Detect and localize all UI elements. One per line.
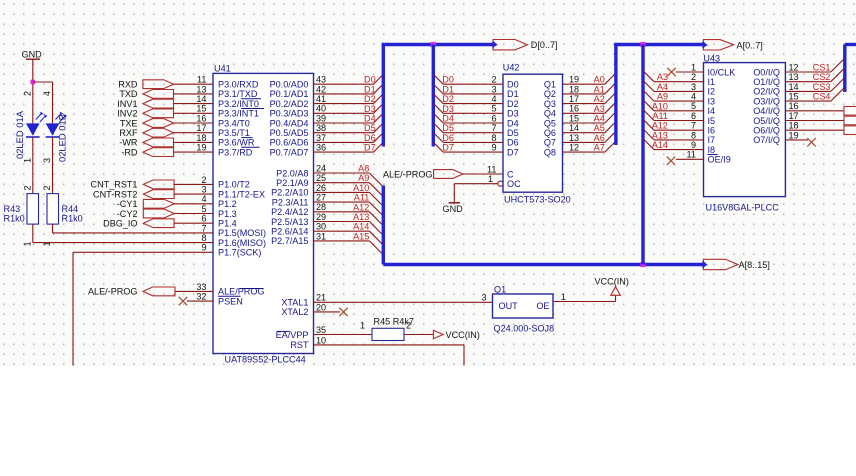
- wire net D3: [314, 103, 384, 113]
- wire net A1: [563, 83, 616, 94]
- svg-text:A7: A7: [594, 143, 605, 153]
- svg-text:U42: U42: [503, 63, 520, 73]
- svg-text:P2.5/A13: P2.5/A13: [271, 217, 308, 227]
- svg-text:A9: A9: [358, 173, 369, 183]
- svg-text:R44: R44: [62, 204, 79, 214]
- svg-text:5: 5: [491, 104, 496, 114]
- svg-text:17: 17: [789, 111, 799, 121]
- svg-text:2: 2: [23, 91, 33, 96]
- junction: [640, 262, 645, 267]
- wire branch to LED 01B: [33, 82, 53, 123]
- svg-text:4: 4: [201, 194, 206, 204]
- wire pin 9 down to sheet edge: [73, 252, 213, 365]
- wire net A10: [314, 192, 384, 206]
- bus wire A[8..15] vertical: [382, 186, 385, 265]
- bus wire CS vertical (right): [843, 45, 846, 93]
- resistor (edge) R49: [844, 126, 856, 135]
- svg-text:D[0..7]: D[0..7]: [531, 40, 558, 50]
- net label A0: [594, 75, 605, 85]
- wire: [174, 132, 214, 134]
- svg-text:P3.7/RD: P3.7/RD: [218, 147, 253, 157]
- svg-text:P3.4/T0: P3.4/T0: [218, 118, 250, 128]
- svg-text:O6/I/Q: O6/I/Q: [753, 126, 780, 136]
- wire net D4 (U42): [433, 113, 503, 123]
- svg-text:Q5: Q5: [544, 118, 556, 128]
- svg-text:A0: A0: [594, 75, 605, 85]
- svg-text:1: 1: [23, 241, 33, 246]
- pin 2 of R43: [23, 185, 33, 190]
- svg-text:P2.6/A14: P2.6/A14: [271, 227, 308, 237]
- wire: [174, 183, 213, 185]
- port ALE/-PROG (at U42): [383, 169, 463, 179]
- resistor R45 R4k7: [360, 317, 414, 341]
- svg-text:16: 16: [196, 113, 206, 123]
- port TXD: [119, 89, 173, 99]
- svg-text:OE: OE: [536, 301, 549, 311]
- svg-text:P3.6/WR: P3.6/WR: [218, 138, 255, 148]
- svg-text:O0/I/Q: O0/I/Q: [753, 67, 780, 77]
- svg-text:5: 5: [691, 101, 696, 111]
- wire net D2: [314, 94, 384, 104]
- svg-text:RXD: RXD: [118, 80, 138, 90]
- svg-text:P2.2/A10: P2.2/A10: [271, 188, 308, 198]
- svg-text:18: 18: [789, 121, 799, 131]
- svg-text:ALE/-PROG: ALE/-PROG: [88, 287, 138, 297]
- net label A8: [358, 164, 369, 174]
- svg-text:Q4: Q4: [544, 109, 556, 119]
- wire net A9: [314, 183, 384, 197]
- wire: [785, 120, 844, 122]
- svg-text:D1: D1: [442, 84, 454, 94]
- bus wire D vertical (U42 side): [432, 45, 435, 147]
- svg-text:8: 8: [491, 133, 496, 143]
- wire net D6: [314, 133, 384, 143]
- wire net D4: [314, 113, 384, 123]
- svg-text:P0.4/AD4: P0.4/AD4: [270, 118, 309, 128]
- svg-text:P0.1/AD1: P0.1/AD1: [270, 89, 309, 99]
- svg-text:9: 9: [491, 143, 496, 153]
- svg-text:P3.5/T1: P3.5/T1: [218, 128, 250, 138]
- wire GND to U42 OC pin 1: [454, 183, 498, 185]
- svg-text:P2.7/A15: P2.7/A15: [271, 236, 308, 246]
- wire: [785, 110, 844, 112]
- no-connect X on U43 pin 19: [785, 138, 815, 146]
- port DBG_IO: [103, 219, 174, 229]
- svg-text:14: 14: [569, 123, 579, 133]
- net label D1: [364, 84, 376, 94]
- no-connect X on XTAL2 pin 20: [314, 308, 348, 316]
- net label CS1: [813, 63, 831, 73]
- net label D0 (U42): [442, 75, 454, 85]
- wire net A14: [314, 231, 384, 245]
- resistor (edge) R47: [844, 107, 856, 116]
- svg-text:A1: A1: [594, 84, 605, 94]
- IC U42 UHCT573-SO20: [487, 63, 579, 205]
- svg-text:A10: A10: [652, 101, 668, 111]
- net label A6: [594, 133, 605, 143]
- wire R44 to pin 7: [53, 224, 214, 233]
- svg-text:A10: A10: [353, 183, 369, 193]
- svg-text:13: 13: [789, 72, 799, 82]
- svg-text:PSEN: PSEN: [218, 296, 243, 306]
- svg-text:25: 25: [316, 173, 326, 183]
- svg-text:42: 42: [316, 84, 326, 94]
- net label CS2: [813, 72, 831, 82]
- svg-text:18: 18: [196, 133, 206, 143]
- svg-text:11: 11: [197, 75, 206, 85]
- wire net A7: [563, 141, 616, 152]
- net label D7 (U42): [442, 143, 454, 153]
- svg-text:GND: GND: [443, 204, 464, 214]
- wire net A2: [563, 93, 616, 104]
- svg-text:Q24.000-SOJ8: Q24.000-SOJ8: [494, 324, 555, 334]
- svg-text:I6: I6: [708, 126, 716, 136]
- wire net D5: [314, 123, 384, 133]
- wire net A10 (U43): [643, 100, 704, 111]
- svg-text:P0.7/AD7: P0.7/AD7: [270, 147, 309, 157]
- port CNT_RST1: [91, 180, 175, 190]
- svg-text:A2: A2: [594, 94, 605, 104]
- svg-text:RST: RST: [290, 340, 309, 350]
- svg-text:2: 2: [42, 185, 52, 190]
- net label A9 (U43): [657, 92, 668, 102]
- wire net D5 (U42): [433, 123, 503, 133]
- svg-text:D5: D5: [507, 128, 519, 138]
- svg-text:I8: I8: [708, 145, 716, 155]
- svg-text:02LED 01B: 02LED 01B: [57, 114, 68, 162]
- wire GND to LEDs: [32, 59, 34, 123]
- svg-text:27: 27: [316, 193, 326, 203]
- wire: [174, 193, 213, 195]
- svg-text:30: 30: [316, 222, 326, 232]
- svg-text:37: 37: [316, 133, 326, 143]
- svg-text:UAT89S52-PLCC44: UAT89S52-PLCC44: [225, 355, 306, 365]
- svg-text:P1.5(MOSI): P1.5(MOSI): [218, 228, 266, 238]
- svg-text:13: 13: [196, 84, 206, 94]
- power port VCC(IN) (at Q1): [595, 276, 629, 295]
- svg-text:CS4: CS4: [813, 92, 831, 102]
- svg-text:12: 12: [569, 143, 579, 153]
- crystal Q1 Q24.000-SOJ8: [481, 284, 565, 333]
- svg-text:P3.1/TXD: P3.1/TXD: [218, 89, 258, 99]
- svg-text:15: 15: [789, 92, 799, 102]
- svg-text:4: 4: [491, 94, 496, 104]
- net label A13: [353, 212, 369, 222]
- wire: [174, 122, 214, 124]
- svg-text:CNT-RST2: CNT-RST2: [93, 189, 137, 199]
- net label A12: [353, 202, 369, 212]
- svg-text:D3: D3: [442, 104, 454, 114]
- svg-text:CS2: CS2: [813, 72, 831, 82]
- svg-text:6: 6: [691, 111, 696, 121]
- svg-text:24: 24: [316, 163, 326, 173]
- svg-text:A4: A4: [657, 82, 668, 92]
- svg-text:6: 6: [201, 214, 206, 224]
- svg-text:1: 1: [691, 62, 696, 72]
- svg-text:GND: GND: [22, 50, 43, 60]
- svg-text:A9: A9: [657, 92, 668, 102]
- svg-text:O2/I/Q: O2/I/Q: [753, 87, 780, 97]
- svg-text:P0.6/AD6: P0.6/AD6: [270, 138, 309, 148]
- svg-text:-CY1: -CY1: [117, 199, 138, 209]
- net label CS4: [813, 92, 831, 102]
- port -WR: [119, 138, 173, 148]
- svg-text:TXD: TXD: [119, 89, 138, 99]
- svg-text:ALE/-PROG: ALE/-PROG: [383, 169, 433, 179]
- net label D2 (U42): [442, 94, 454, 104]
- svg-text:I3: I3: [708, 96, 716, 106]
- wire net D7: [314, 142, 384, 152]
- wire net D0: [314, 74, 384, 84]
- svg-text:2: 2: [491, 75, 496, 85]
- wire R43 to pin 8: [33, 224, 213, 243]
- svg-text:I1: I1: [708, 77, 716, 87]
- svg-text:D0: D0: [364, 75, 376, 85]
- wire Q1 OE to VCC(IN): [553, 295, 616, 301]
- svg-text:4: 4: [42, 91, 52, 96]
- svg-text:9: 9: [201, 243, 206, 253]
- svg-text:2: 2: [201, 175, 206, 185]
- svg-text:O5/I/Q: O5/I/Q: [753, 116, 780, 126]
- net label D7: [364, 143, 376, 153]
- svg-text:D2: D2: [507, 99, 519, 109]
- svg-text:U43: U43: [703, 53, 720, 63]
- svg-text:18: 18: [569, 84, 579, 94]
- svg-text:A3: A3: [657, 72, 668, 82]
- svg-text:3: 3: [201, 185, 206, 195]
- svg-text:1: 1: [360, 321, 365, 331]
- LED 02LED 01B: [46, 112, 68, 162]
- svg-text:A8: A8: [358, 164, 369, 174]
- svg-text:UHCT573-SO20: UHCT573-SO20: [504, 194, 571, 204]
- svg-text:P3.0/RXD: P3.0/RXD: [218, 80, 259, 90]
- svg-text:19: 19: [789, 130, 799, 140]
- svg-text:A[8..15]: A[8..15]: [739, 260, 770, 270]
- svg-text:P2.3/A11: P2.3/A11: [272, 197, 309, 207]
- pin 3 of LED 01B: [42, 158, 52, 163]
- svg-text:U41: U41: [214, 64, 231, 74]
- wire net D6 (U42): [433, 133, 503, 143]
- net label D4: [364, 114, 376, 124]
- wire: [174, 151, 214, 153]
- svg-text:19: 19: [569, 75, 579, 85]
- svg-text:10: 10: [316, 335, 326, 345]
- wire: [175, 290, 213, 292]
- ground GND (at U42): [443, 184, 464, 214]
- port A[8..15]: [698, 259, 770, 270]
- svg-text:P3.2/INT0: P3.2/INT0: [218, 99, 259, 109]
- svg-text:3: 3: [691, 82, 696, 92]
- svg-text:I7: I7: [708, 135, 716, 145]
- net label A1: [594, 84, 605, 94]
- svg-text:P2.4/A12: P2.4/A12: [271, 207, 308, 217]
- wire net A3 (U43): [643, 71, 704, 82]
- resistor R44 R1k0: [47, 194, 83, 225]
- wire RST down to sheet edge: [314, 345, 465, 366]
- bus wire A vertical (U42 side): [614, 45, 617, 146]
- wire net CS4: [785, 87, 844, 101]
- svg-text:17: 17: [196, 123, 206, 133]
- svg-text:12: 12: [789, 62, 799, 72]
- wire XTAL1 to Q1: [314, 301, 493, 303]
- port INV1: [117, 99, 173, 109]
- svg-text:A3: A3: [594, 104, 605, 114]
- wire net A12: [314, 212, 384, 226]
- svg-text:A14: A14: [353, 222, 369, 232]
- svg-text:Q6: Q6: [544, 128, 556, 138]
- svg-text:A11: A11: [652, 111, 668, 121]
- svg-text:2: 2: [406, 321, 411, 331]
- svg-text:7: 7: [201, 223, 206, 233]
- pin 2 of R44: [42, 185, 52, 190]
- svg-text:D1: D1: [507, 89, 519, 99]
- net label D5: [364, 123, 376, 133]
- svg-text:U16V8GAL-PLCC: U16V8GAL-PLCC: [706, 203, 780, 213]
- svg-text:D3: D3: [507, 109, 519, 119]
- wire net D3 (U42): [433, 103, 503, 113]
- wire LED B to R44: [52, 137, 54, 194]
- svg-text:P1.0/T2: P1.0/T2: [218, 180, 250, 190]
- svg-text:INV1: INV1: [117, 99, 137, 109]
- net label D0: [364, 75, 376, 85]
- bus wire A[8..15] horizontal: [383, 263, 703, 266]
- wire net D1 (U42): [433, 84, 503, 94]
- svg-text:A14: A14: [652, 140, 668, 150]
- svg-text:8: 8: [691, 130, 696, 140]
- svg-text:O4/I/Q: O4/I/Q: [753, 106, 780, 116]
- wire net A4: [563, 112, 616, 123]
- wire net A13: [314, 222, 384, 236]
- power port VCC(IN) (at R45): [433, 330, 479, 340]
- net label D3 (U42): [442, 104, 454, 114]
- wire net D2 (U42): [433, 94, 503, 104]
- svg-text:15: 15: [569, 113, 579, 123]
- svg-text:41: 41: [316, 94, 326, 104]
- IC U43 U16V8GAL-PLCC: [687, 53, 799, 212]
- wire: [174, 83, 214, 85]
- wire LED A to R43: [32, 137, 34, 194]
- svg-text:D4: D4: [442, 114, 454, 124]
- net label CS3: [813, 82, 831, 92]
- wire EA/VPP to R45: [314, 334, 373, 336]
- svg-text:28: 28: [316, 202, 326, 212]
- svg-text:D7: D7: [442, 143, 454, 153]
- svg-text:D2: D2: [364, 94, 376, 104]
- wire net A11 (U43): [643, 110, 704, 121]
- svg-text:VCC(IN): VCC(IN): [446, 330, 480, 340]
- svg-text:4: 4: [691, 92, 696, 102]
- junction: [31, 80, 36, 85]
- svg-text:D6: D6: [364, 133, 376, 143]
- net label D5 (U42): [442, 123, 454, 133]
- svg-text:R43: R43: [4, 204, 21, 214]
- pin 2 of LED 01A: [23, 91, 33, 96]
- svg-text:A12: A12: [652, 121, 668, 131]
- svg-text:17: 17: [569, 94, 579, 104]
- bus wire A horizontal (top): [614, 43, 703, 46]
- bus wire A vertical (U43 side): [641, 45, 644, 265]
- port -CY2: [117, 209, 174, 219]
- wire: [174, 103, 214, 105]
- wire net A11: [314, 202, 384, 216]
- wire net A14 (U43): [643, 139, 704, 150]
- net label A14 (U43): [652, 140, 668, 150]
- net label A12 (U43): [652, 121, 668, 131]
- net label A4: [594, 114, 605, 124]
- svg-text:36: 36: [316, 143, 326, 153]
- svg-text:A13: A13: [652, 130, 668, 140]
- port A[0..7]: [698, 40, 763, 51]
- svg-text:D7: D7: [364, 143, 376, 153]
- svg-text:P1.2: P1.2: [218, 199, 237, 209]
- net label A3 (U43): [657, 72, 668, 82]
- net label D3: [364, 104, 376, 114]
- wire net A3: [563, 102, 616, 113]
- wire net A5: [563, 122, 616, 133]
- svg-text:1: 1: [561, 292, 566, 302]
- svg-text:R1k0: R1k0: [4, 214, 25, 224]
- svg-text:Q1: Q1: [494, 284, 506, 294]
- wire net A13 (U43): [643, 129, 704, 140]
- net label A2: [594, 94, 605, 104]
- wire net A8: [314, 173, 384, 187]
- junction: [640, 42, 645, 47]
- svg-text:D1: D1: [364, 84, 376, 94]
- svg-text:29: 29: [316, 212, 326, 222]
- net label D4 (U42): [442, 114, 454, 124]
- svg-text:6: 6: [491, 113, 496, 123]
- svg-text:A5: A5: [594, 123, 605, 133]
- net label A15: [353, 231, 369, 241]
- svg-text:OUT: OUT: [499, 301, 519, 311]
- resistor (edge) R48: [844, 116, 856, 125]
- port -CY1: [117, 199, 174, 209]
- no-connect X on U43 pin 1: [667, 68, 703, 76]
- svg-text:P1.7(SCK): P1.7(SCK): [218, 248, 261, 258]
- svg-text:43: 43: [316, 75, 326, 85]
- svg-text:P2.0/A8: P2.0/A8: [276, 168, 308, 178]
- wire: [174, 112, 214, 114]
- svg-text:35: 35: [316, 325, 326, 335]
- net label A4 (U43): [657, 82, 668, 92]
- svg-text:-CY2: -CY2: [117, 209, 138, 219]
- wire net D1: [314, 84, 384, 94]
- svg-text:D4: D4: [364, 114, 376, 124]
- svg-text:P0.3/AD3: P0.3/AD3: [270, 109, 309, 119]
- svg-text:A6: A6: [594, 133, 605, 143]
- svg-text:P0.0/AD0: P0.0/AD0: [270, 80, 309, 90]
- svg-text:D4: D4: [507, 118, 519, 128]
- no-connect X on PSEN pin 32: [179, 297, 213, 305]
- bus wire D vertical (U41 side): [382, 45, 385, 147]
- wire net A9 (U43): [643, 90, 704, 101]
- svg-text:P1.4: P1.4: [218, 219, 237, 229]
- svg-text:VCC(IN): VCC(IN): [595, 276, 629, 286]
- svg-text:R1k0: R1k0: [62, 214, 83, 224]
- wire R45 to VCC(IN): [404, 334, 433, 336]
- svg-text:Q3: Q3: [544, 99, 556, 109]
- svg-text:02LED 01A: 02LED 01A: [14, 110, 25, 159]
- IC U41 UAT89S52-PLCC44: [196, 64, 326, 365]
- svg-text:D6: D6: [442, 133, 454, 143]
- svg-text:1: 1: [23, 158, 33, 163]
- svg-text:26: 26: [316, 183, 326, 193]
- wire net A4 (U43): [643, 80, 704, 91]
- pin 4 of LED 01B: [42, 91, 52, 96]
- wire net CS1: [785, 58, 844, 72]
- svg-text:16: 16: [569, 104, 579, 114]
- net label A7: [594, 143, 605, 153]
